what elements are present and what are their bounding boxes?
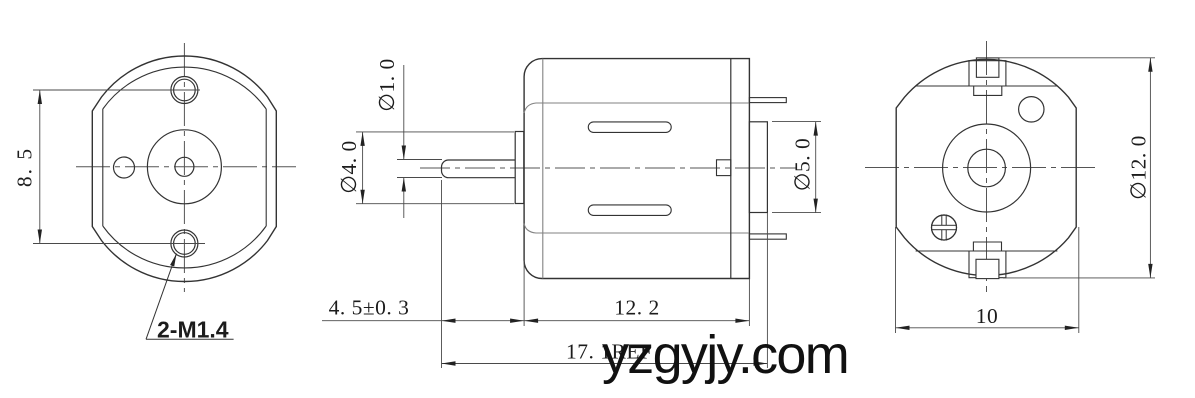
horizontal centerline [420,167,797,169]
extension line top hole [33,89,200,91]
svg-text:8. 5: 8. 5 [13,147,37,187]
extension can right vertical [748,279,750,327]
svg-text:∅5. 0: ∅5. 0 [791,138,815,191]
dimension line dia 4.0 [362,132,364,204]
extension boss bottom [356,203,514,205]
motor body outline [524,59,749,279]
extension shaft tip vertical [441,180,443,368]
terminal top [749,98,786,103]
extension 10 right [1078,227,1080,333]
extension bump right vertical [766,213,768,368]
screw cross circle restroke [932,215,957,240]
top mounting hole outer [171,77,198,104]
extension bump bottom [772,212,821,214]
dimension line dia 12.0 [1149,58,1151,278]
screw cross circle [932,215,957,240]
inner flat right [265,109,267,226]
bottom tab inner rect [976,259,999,278]
endcap notch square [717,160,731,176]
left vent hole [114,157,135,178]
vertical centerline [986,41,988,292]
center shaft hole [175,157,194,176]
extension bump top (dia 5.0) [772,121,821,123]
outer contour [92,56,276,282]
screw cross vertical bar [942,215,946,240]
bottom mounting hole outer [171,230,198,257]
center boss circle [147,130,221,204]
vent slot bottom [588,205,671,216]
extension boss top (dia 4.0) [356,131,514,133]
horizontal centerline [865,167,1100,169]
inner flat left [102,109,104,226]
center boss circle [943,124,1031,212]
dimension line 8.5 [39,90,41,244]
dimension line dia 5.0 [815,122,817,213]
svg-text:12. 2: 12. 2 [614,296,660,320]
svg-text:∅1. 0: ∅1. 0 [375,58,399,111]
extension 10 left [895,227,897,333]
svg-text:∅4. 0: ∅4. 0 [337,140,361,193]
leader line 2-M1.4 [146,254,177,340]
top tab inner rect [976,58,999,77]
svg-text:2-M1.4: 2-M1.4 [157,317,229,343]
brush cap bump [749,122,767,213]
dimension line 10 [896,327,1079,329]
top tab lower rect [974,86,1002,95]
dimension line 17.1 [442,363,768,365]
endcap seam [730,59,732,279]
svg-text:∅12. 0: ∅12. 0 [1127,135,1151,200]
inner contour top arc [103,67,266,109]
center hole [968,149,1006,187]
extension can left vertical [523,261,525,327]
upper right hole [1019,97,1044,122]
bottom tab upper rect [973,242,1001,251]
extension shaft top (dia 1.0) [397,159,442,161]
extension dia12 bottom [1003,277,1155,279]
svg-text:yzgyjy.com: yzgyjy.com [602,325,848,385]
dimension line dia 1.0 [403,65,405,160]
top tab wide rect [969,61,1006,86]
svg-text:10: 10 [976,304,999,328]
outer contour [896,59,1076,275]
bottom flat line [524,224,749,234]
terminal bottom [749,234,786,239]
front seam vertical [542,59,544,279]
extension dia12 top [999,57,1155,59]
horizontal centerline [76,166,296,168]
screw cross horizontal bar [932,225,957,229]
dimension line 4.5 and 12.2 [322,320,749,322]
bottom chord line [916,250,1058,252]
bearing boss [515,132,524,204]
leader underline [146,338,234,340]
shaft [442,160,516,178]
vent slot top [588,122,671,132]
top flat line [524,103,749,113]
bottom tab wide rect [969,251,1006,278]
extension shaft bottom [397,177,442,179]
svg-text:4. 5±0. 3: 4. 5±0. 3 [329,296,410,320]
inner contour bottom arc [103,226,266,268]
top mounting hole inner [174,79,196,101]
top chord line [916,85,1058,87]
vertical centerline [183,43,185,292]
extension line bottom hole [33,243,205,245]
bottom mounting hole inner [174,233,196,255]
